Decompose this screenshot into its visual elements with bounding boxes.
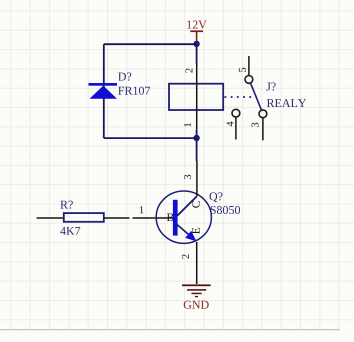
resistor R? body — [64, 213, 104, 222]
diode designator D? — [118, 73, 131, 81]
pin name E — [192, 228, 200, 234]
wire diode branch bottom (horizontal to coil junction) — [104, 137, 197, 139]
pin name B — [167, 213, 174, 221]
pin number 4 — [227, 122, 234, 127]
wire coil pin 1 to junction — [196, 130, 198, 138]
wire junction to coil pin 2 — [196, 44, 198, 64]
collector pin lead — [196, 161, 198, 196]
relay contact pin 4 lead — [235, 117, 237, 140]
emitter pin lead — [196, 242, 198, 284]
diode D? symbol (cathode bar + anode triangle) — [89, 83, 118, 99]
ground symbol GND — [182, 284, 211, 297]
emitter arrow — [185, 231, 196, 242]
transistor designator Q? — [209, 192, 222, 202]
pin number 2 (coil top) — [186, 68, 193, 72]
relay value REALY — [267, 99, 306, 107]
transistor base bar — [173, 200, 178, 236]
wire junction to collector — [196, 138, 198, 161]
relay armature (switch arm 5 to 3) — [250, 83, 261, 111]
junction at 12V rail — [193, 41, 199, 47]
pin number 1 (coil bottom) — [184, 123, 191, 127]
power port bar 12V — [190, 30, 203, 42]
collector diagonal — [177, 196, 197, 215]
transistor Q? body circle — [156, 191, 211, 243]
emitter diagonal — [177, 225, 196, 241]
junction coil bottom — [193, 135, 199, 141]
pin number 1 (transistor base) — [140, 206, 144, 213]
pin name C — [192, 201, 200, 208]
contact circle pin 3 — [259, 110, 267, 118]
relay contact pin 5 lead — [248, 56, 250, 76]
ground label GND — [184, 301, 209, 309]
wire diode branch (left vertical) — [103, 44, 105, 138]
power label 12V — [187, 21, 206, 29]
coil pin 2 lead — [196, 64, 198, 84]
resistor designator R? — [60, 201, 72, 209]
pin number 3 (collector) — [184, 175, 191, 179]
diode value FR107 — [118, 87, 150, 95]
relay contact pin 3 lead — [262, 118, 264, 141]
transistor base pin lead — [133, 217, 174, 219]
resistor value 4K7 — [60, 227, 80, 235]
resistor pin 1 lead — [104, 217, 130, 219]
contact circle pin 5 — [245, 76, 253, 84]
coil pin 1 lead — [196, 110, 198, 130]
coil pin line through body — [196, 84, 198, 110]
relay designator J? — [266, 82, 275, 90]
pin number 2 (emitter) — [182, 254, 189, 258]
transistor value S8050 — [211, 206, 240, 214]
pin number 3 — [252, 123, 259, 127]
pin number 5 — [239, 68, 246, 72]
wire 12V rail to diode branch (top horizontal) — [104, 43, 197, 45]
relay coil J? body — [169, 84, 223, 110]
resistor R? pin 2 lead — [37, 217, 64, 219]
dotted linkage coil to armature — [225, 96, 257, 98]
contact circle pin 4 — [232, 109, 240, 117]
